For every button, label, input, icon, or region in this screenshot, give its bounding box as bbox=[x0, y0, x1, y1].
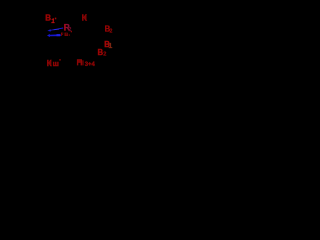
arrow 1 shaft highlight bbox=[53, 29, 59, 30]
dot after K-sh bbox=[59, 59, 61, 61]
background bbox=[0, 0, 120, 80]
tiny red formula text under R2: F mark bbox=[60, 33, 63, 36]
tick mark top right of formula bbox=[71, 31, 72, 32]
svg-text:3+4: 3+4 bbox=[85, 62, 96, 68]
R2 bright stem bbox=[64, 24, 65, 31]
arrow 2 tail blob bbox=[57, 34, 61, 36]
subscript 1 bbox=[82, 60, 83, 65]
svg-text:ш: ш bbox=[53, 59, 59, 68]
svg-text:2: 2 bbox=[110, 29, 113, 35]
stray dot near B1 bbox=[55, 18, 57, 20]
label R 1,3+4 (bottom right): Ya-like block bbox=[77, 59, 82, 65]
K bottom wedge fill bbox=[49, 61, 51, 66]
vector arrow 2 (blue, points left) bbox=[47, 34, 61, 37]
vector arrow 1 (blue, points left) bbox=[47, 28, 63, 32]
svg-text:1: 1 bbox=[108, 43, 112, 50]
tiny red formula text under R2: Eh mark bbox=[64, 33, 67, 36]
Ya inner fill bbox=[78, 60, 81, 63]
comma after Eh bbox=[69, 34, 70, 35]
K wedge fill bbox=[84, 15, 87, 20]
svg-text:2: 2 bbox=[103, 52, 106, 58]
